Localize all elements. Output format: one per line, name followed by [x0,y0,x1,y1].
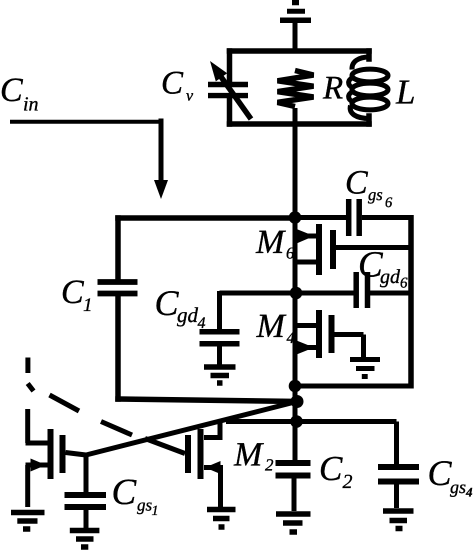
wire: tank right edge segments [366,51,372,59]
svg-text:C: C [319,449,343,488]
svg-text:2: 2 [343,471,353,493]
svg-text:C: C [155,283,180,323]
svg-text:6: 6 [286,244,295,263]
wire: diagonal node D to M1 gate junction [86,402,297,456]
svg-text:gd: gd [380,266,401,288]
transistor M4 [319,310,332,358]
node B [290,287,303,300]
tank box wiring [230,51,370,124]
wire: right rail [408,215,414,389]
svg-text:M: M [255,224,286,261]
svg-text:gs: gs [137,496,153,515]
node E [290,415,303,428]
wire: main vertical (tank to node A) [293,108,298,220]
ground (Cgs1) [70,531,100,548]
svg-text:1: 1 [83,295,93,316]
svg-text:4: 4 [287,330,295,347]
wire: main vertical (node A down to C2) [293,217,298,461]
svg-text:L: L [395,73,415,112]
capacitor Cgs6 [349,199,360,236]
svg-text:C: C [161,66,184,102]
resistor R [278,71,314,107]
svg-text:C: C [112,472,138,513]
svg-text:gs: gs [368,185,383,204]
middle box [118,218,297,402]
wire: tank bottom edge [230,121,370,127]
svg-text:6: 6 [400,276,408,292]
svg-text:2: 2 [265,456,274,475]
wire: node C to right rail [295,384,413,389]
svg-text:v: v [186,88,194,105]
svg-text:C: C [428,453,453,493]
capacitor Cv (variable) [208,85,248,96]
svg-text:gs: gs [450,477,466,497]
wire: node B to Cgd4 [220,291,297,296]
transistor M6 [319,224,333,275]
wire: box top edge [118,215,295,221]
ground (M2 source) [207,510,236,528]
svg-text:in: in [23,94,39,116]
wire: node E horizontal [226,419,397,424]
wire: tank left edge segments [227,51,233,82]
dashed line (M1 drain to M2 gate) [28,358,185,454]
node C [289,380,302,393]
wire: box left edge [115,218,121,280]
capacitor C1 [98,282,138,294]
arrow of Cv [219,74,251,119]
wire: supply to tank top [293,21,298,53]
ground (M1 source) [11,513,45,530]
node D [291,395,304,408]
inductor L [349,57,388,119]
capacitor Cgs4 [394,422,399,466]
ground (M4 gate) [350,360,380,377]
Cin arrow [10,120,161,124]
ground (Cgd4) [204,367,236,383]
svg-text:M: M [233,437,264,474]
svg-text:gd: gd [177,303,199,327]
svg-text:C: C [61,274,84,311]
capacitor Cgd4 [217,291,222,330]
capacitor C2 [276,463,311,476]
svg-text:M: M [256,308,287,345]
capacitor Cgd6 [356,272,367,308]
svg-text:4: 4 [198,315,206,332]
capacitor Cgs1 [84,455,89,493]
ground (Cgs4) [383,511,414,529]
ground (C2) [276,514,311,532]
supply rail symbol (inverted ground) [280,3,311,21]
wire: box bottom edge [118,399,297,402]
wire: tank top edge [230,48,370,54]
transistor M1 [51,429,63,479]
svg-text:C: C [345,165,368,202]
svg-text:4: 4 [465,485,473,500]
svg-text:6: 6 [385,195,393,211]
node A [289,211,302,224]
svg-text:1: 1 [152,504,159,519]
svg-text:C: C [0,72,23,109]
svg-text:R: R [322,71,343,107]
transistor M2 [188,429,201,479]
